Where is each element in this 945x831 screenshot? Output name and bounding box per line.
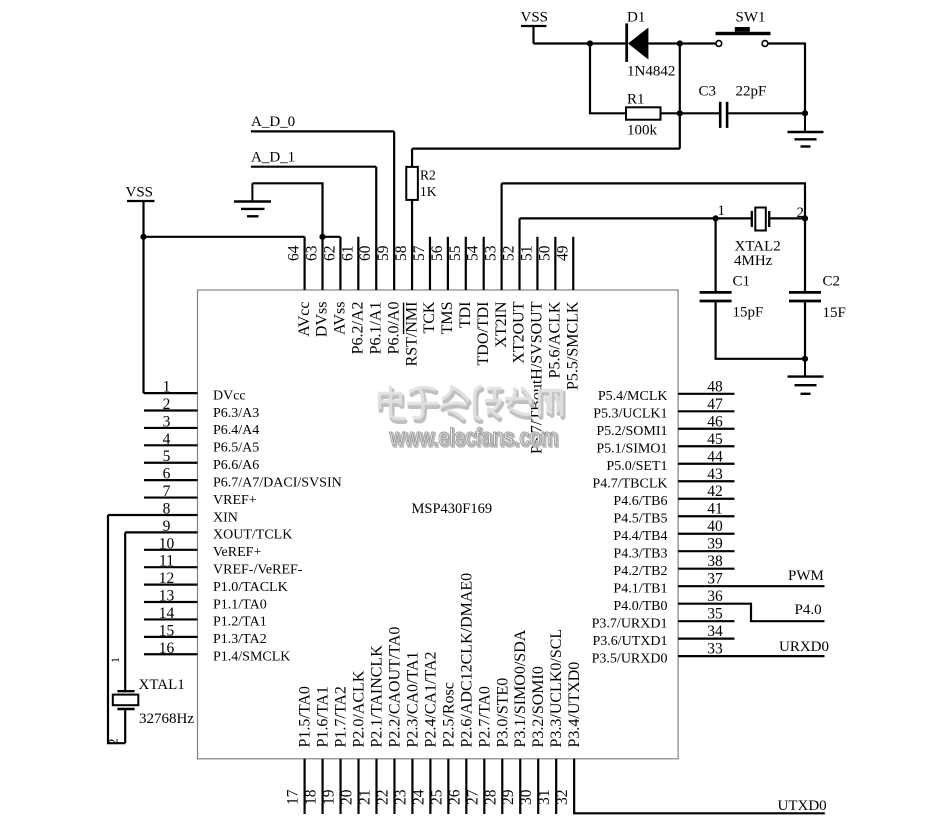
wire pin52 XT2OUT to node 1	[520, 217, 752, 219]
pin 51 lead	[536, 237, 538, 290]
pin 28 lead	[501, 759, 503, 814]
wire SW1 to ground	[768, 44, 805, 114]
svg-text:20: 20	[339, 789, 356, 805]
capacitor C1	[700, 291, 732, 294]
svg-text:1: 1	[718, 203, 726, 219]
resistor R1	[626, 107, 661, 119]
svg-text:P5.6/ACLK: P5.6/ACLK	[547, 301, 564, 378]
svg-text:51: 51	[518, 246, 535, 262]
svg-text:P2.3/CA0/TA1: P2.3/CA0/TA1	[404, 651, 421, 747]
pin 5 lead	[144, 462, 198, 464]
pin 14 lead	[144, 618, 198, 620]
wire pin53 XT2IN to node 2	[502, 183, 805, 218]
svg-text:P4.0: P4.0	[795, 602, 822, 618]
pin 56 lead	[447, 237, 449, 290]
crystal XTAL2	[751, 211, 753, 227]
pin 25 lead	[447, 759, 449, 814]
wire D1 to switch	[648, 42, 716, 44]
pin 46 lead	[678, 428, 734, 430]
svg-text:2: 2	[106, 739, 121, 746]
svg-text:14: 14	[159, 605, 175, 622]
svg-text:P3.5/URXD0: P3.5/URXD0	[592, 651, 668, 666]
svg-text:XT2OUT: XT2OUT	[511, 301, 528, 363]
svg-text:11: 11	[159, 553, 174, 570]
svg-text:41: 41	[707, 501, 723, 518]
pin 23 lead	[411, 759, 413, 814]
resistor R2	[406, 167, 418, 200]
svg-text:TDI: TDI	[457, 302, 474, 329]
svg-text:P4.6/TB6: P4.6/TB6	[613, 494, 667, 509]
junction at pin63	[319, 234, 325, 240]
svg-text:P3.0/STE0: P3.0/STE0	[494, 678, 511, 748]
svg-text:27: 27	[464, 789, 481, 805]
svg-text:URXD0: URXD0	[779, 639, 829, 655]
power symbol VSS (top)	[521, 25, 547, 27]
svg-text:C3: C3	[699, 84, 717, 100]
svg-text:P5.4/MCLK: P5.4/MCLK	[598, 389, 668, 404]
svg-text:24: 24	[410, 789, 427, 805]
svg-text:28: 28	[482, 789, 499, 805]
svg-text:P2.4/CA1/TA2: P2.4/CA1/TA2	[422, 651, 439, 747]
pin 42 lead	[678, 498, 734, 500]
wire A_D_0 to pin59	[251, 130, 394, 132]
svg-text:MSP430F169: MSP430F169	[412, 501, 493, 517]
pin 10 lead	[144, 549, 198, 551]
svg-text:58: 58	[393, 245, 410, 261]
svg-text:38: 38	[707, 553, 723, 570]
pin 6 lead	[144, 479, 198, 481]
svg-text:P2.7/TA0: P2.7/TA0	[476, 686, 493, 747]
svg-text:PWM: PWM	[788, 568, 824, 584]
svg-text:XTAL1: XTAL1	[139, 677, 185, 693]
svg-text:32: 32	[554, 790, 571, 806]
svg-text:P6.1/A1: P6.1/A1	[367, 302, 384, 355]
svg-text:1: 1	[163, 379, 171, 396]
pin 29 lead	[519, 759, 521, 814]
wire C2 to ground	[804, 301, 806, 359]
svg-text:42: 42	[707, 483, 723, 500]
svg-text:P6.4/A4: P6.4/A4	[213, 423, 259, 438]
svg-text:43: 43	[707, 466, 723, 483]
overline on NMI of pin 58 label	[403, 303, 405, 335]
svg-text:36: 36	[707, 588, 723, 605]
wire node2 to C2	[804, 218, 806, 292]
wire R1 to C3	[661, 112, 721, 114]
svg-text:100k: 100k	[627, 123, 658, 139]
svg-text:P1.6/TA1: P1.6/TA1	[315, 686, 332, 747]
svg-text:62: 62	[321, 246, 338, 262]
wire node1 to C1	[714, 218, 716, 292]
wire D1 junction down to R2 net	[679, 44, 681, 149]
svg-text:3: 3	[163, 413, 171, 430]
capacitor C2	[789, 291, 821, 294]
pin 33 lead	[678, 655, 824, 657]
pin 16 lead	[144, 653, 198, 655]
svg-text:22: 22	[374, 790, 391, 806]
svg-text:XIN: XIN	[213, 510, 238, 525]
svg-text:R2: R2	[420, 168, 436, 183]
pin 57 lead	[429, 237, 431, 290]
svg-text:15: 15	[159, 622, 175, 639]
svg-text:P1.2/TA1: P1.2/TA1	[213, 615, 267, 630]
svg-text:SW1: SW1	[736, 10, 766, 26]
svg-text:63: 63	[304, 245, 321, 261]
pin 50 lead	[554, 237, 556, 290]
svg-text:40: 40	[707, 518, 723, 535]
svg-text:17: 17	[285, 789, 302, 805]
pin 26 lead	[465, 759, 467, 814]
switch SW1	[716, 32, 771, 35]
svg-text:32768Hz: 32768Hz	[139, 711, 194, 727]
svg-text:33: 33	[707, 641, 723, 658]
svg-text:VREF-/VeREF-: VREF-/VeREF-	[213, 563, 303, 578]
pin 12 lead	[144, 584, 198, 586]
svg-text:R1: R1	[627, 92, 645, 108]
pin 53 lead	[501, 183, 503, 290]
svg-text:12: 12	[159, 570, 175, 587]
svg-text:64: 64	[286, 245, 303, 261]
pin 1 lead	[144, 392, 198, 394]
pin 64 lead	[304, 237, 306, 290]
svg-text:P4.4/TB4: P4.4/TB4	[613, 529, 667, 544]
pin 59 lead	[393, 131, 395, 290]
svg-text:P4.3/TB3: P4.3/TB3	[613, 547, 667, 562]
pin 13 lead	[144, 601, 198, 603]
svg-text:7: 7	[163, 483, 171, 500]
svg-text:P4.5/TB5: P4.5/TB5	[613, 512, 667, 527]
svg-text:26: 26	[446, 789, 463, 805]
svg-text:39: 39	[707, 536, 723, 553]
pin 47 lead	[678, 410, 734, 412]
wire ground to pin63	[252, 183, 322, 237]
svg-text:VeREF+: VeREF+	[213, 545, 261, 560]
pin 55 lead	[465, 237, 467, 290]
pin 49 lead	[572, 237, 574, 290]
pin 24 lead	[429, 759, 431, 814]
svg-text:P5.2/SOMI1: P5.2/SOMI1	[596, 424, 667, 439]
svg-text:23: 23	[392, 789, 409, 805]
svg-text:P1.0/TACLK: P1.0/TACLK	[213, 580, 288, 595]
svg-text:P5.1/SIMO1: P5.1/SIMO1	[596, 442, 667, 457]
svg-text:55: 55	[447, 245, 464, 261]
svg-text:59: 59	[375, 245, 392, 261]
pin 37 lead	[678, 585, 824, 587]
junction R1/C3/reset	[677, 110, 683, 116]
svg-text:VREF+: VREF+	[213, 493, 257, 508]
svg-text:25: 25	[428, 789, 445, 805]
svg-text:TCK: TCK	[421, 301, 438, 333]
node 2 junction	[802, 215, 808, 221]
svg-text:P6.7/A7/DACI/SVSIN: P6.7/A7/DACI/SVSIN	[213, 475, 342, 490]
crystal XTAL1	[117, 690, 134, 692]
svg-text:10: 10	[159, 535, 175, 552]
pin 48 lead	[678, 393, 734, 395]
pin 11 lead	[144, 566, 198, 568]
pin 36 lead	[678, 604, 824, 621]
svg-text:16: 16	[159, 640, 175, 657]
svg-text:22pF: 22pF	[736, 84, 767, 100]
pin 21 lead	[375, 759, 377, 814]
svg-text:P3.6/UTXD1: P3.6/UTXD1	[592, 634, 667, 649]
svg-text:56: 56	[429, 245, 446, 261]
svg-text:4: 4	[163, 431, 171, 448]
svg-text:5: 5	[163, 448, 171, 465]
wire crystal to node 2	[769, 217, 805, 219]
svg-text:P3.7/URXD1: P3.7/URXD1	[592, 616, 668, 631]
svg-text:P6.2/A2: P6.2/A2	[350, 302, 367, 355]
junction C3/SW1 ground node	[802, 110, 808, 116]
svg-text:P3.1/SIMO0/SDA: P3.1/SIMO0/SDA	[512, 629, 529, 747]
diode D1	[625, 23, 628, 62]
svg-text:19: 19	[321, 789, 338, 805]
svg-text:P3.2/SOMI0: P3.2/SOMI0	[530, 666, 547, 747]
svg-text:P2.2/CAOUT/TA0: P2.2/CAOUT/TA0	[386, 627, 403, 748]
pin 2 lead	[144, 409, 198, 411]
wire VSS to diode D1	[534, 42, 627, 44]
svg-text:A_D_1: A_D_1	[251, 150, 295, 166]
svg-text:UTXD0: UTXD0	[778, 798, 827, 814]
pin 44 lead	[678, 463, 734, 465]
svg-text:P1.7/TA2: P1.7/TA2	[333, 686, 350, 747]
svg-text:1N4842: 1N4842	[627, 64, 675, 80]
svg-text:60: 60	[357, 245, 374, 261]
pin 9 lead	[125, 531, 197, 533]
svg-text:D1: D1	[627, 10, 645, 26]
svg-text:VSS: VSS	[126, 185, 154, 201]
wire reset net to R2	[412, 148, 680, 150]
wire C3 to ground	[727, 112, 805, 114]
wire pin9 XOUT down	[124, 532, 126, 691]
svg-text:P6.5/A5: P6.5/A5	[213, 441, 259, 456]
watermark elecfans	[381, 390, 563, 422]
svg-text:48: 48	[707, 378, 723, 395]
ground symbol (pin 63)	[251, 183, 253, 201]
pin 40 lead	[678, 533, 734, 535]
svg-text:XT2IN: XT2IN	[493, 301, 510, 348]
svg-text:61: 61	[339, 246, 356, 262]
capacitor C3	[719, 102, 722, 128]
svg-text:P2.1/TAINCLK: P2.1/TAINCLK	[368, 645, 385, 748]
junction right of D1	[677, 40, 683, 46]
svg-text:P1.3/TA2: P1.3/TA2	[213, 632, 267, 647]
pin 7 lead	[144, 496, 198, 498]
wire C1 to ground node	[716, 301, 805, 359]
wire VSS to pin64	[144, 236, 305, 238]
pin 3 lead	[144, 427, 198, 429]
svg-text:29: 29	[500, 789, 517, 805]
pin 38 lead	[678, 568, 734, 570]
svg-text:1: 1	[108, 657, 122, 663]
pin 63 lead	[321, 237, 323, 290]
pin 61 lead	[357, 237, 359, 290]
svg-text:VSS: VSS	[521, 10, 549, 26]
power symbol VSS (left)	[127, 200, 155, 202]
pin 62 lead	[339, 237, 341, 290]
svg-text:46: 46	[707, 413, 723, 430]
pin 20 lead	[357, 759, 359, 814]
pin 22 lead	[393, 759, 395, 814]
wire VSS-top stem	[532, 26, 534, 44]
svg-text:P5.0/SET1: P5.0/SET1	[606, 459, 667, 474]
pin 52 lead	[518, 218, 520, 290]
pin 60 lead	[375, 167, 377, 290]
junction at XTAL2 ground	[802, 356, 808, 362]
pin 30 lead	[537, 759, 539, 814]
svg-text:57: 57	[411, 245, 428, 261]
svg-text:8: 8	[163, 500, 171, 517]
svg-text:P6.3/A3: P6.3/A3	[213, 406, 259, 421]
svg-text:A_D_0: A_D_0	[251, 114, 295, 130]
svg-text:P2.0/ACLK: P2.0/ACLK	[351, 670, 368, 747]
svg-text:DVss: DVss	[314, 302, 331, 338]
svg-text:18: 18	[303, 789, 320, 805]
svg-text:P1.4/SMCLK: P1.4/SMCLK	[213, 650, 290, 665]
pin 8 lead	[108, 514, 198, 516]
svg-text:DVcc: DVcc	[213, 388, 246, 403]
svg-text:34: 34	[707, 623, 723, 640]
svg-text:P4.1/TB1: P4.1/TB1	[613, 581, 667, 596]
svg-text:31: 31	[536, 790, 553, 806]
svg-text:TDO/TDI: TDO/TDI	[475, 302, 492, 366]
svg-text:50: 50	[536, 245, 553, 261]
svg-text:47: 47	[707, 396, 723, 413]
svg-text:P4.7/TBCLK: P4.7/TBCLK	[592, 477, 667, 492]
svg-text:P1.5/TA0: P1.5/TA0	[297, 686, 314, 747]
svg-text:AVss: AVss	[332, 302, 349, 336]
svg-text:C2: C2	[823, 274, 841, 290]
svg-text:52: 52	[501, 246, 518, 262]
pin 4 lead	[144, 444, 198, 446]
pin 41 lead	[678, 515, 734, 517]
svg-text:37: 37	[707, 571, 723, 588]
pin 31 lead	[555, 759, 557, 814]
ground symbol (reset)	[804, 113, 806, 132]
svg-text:53: 53	[483, 245, 500, 261]
wire A_D_1 to pin60	[251, 166, 376, 168]
svg-text:C1: C1	[733, 274, 751, 290]
svg-text:P3.4/UTXD0: P3.4/UTXD0	[566, 662, 583, 748]
svg-text:AVcc: AVcc	[296, 302, 313, 337]
svg-text:15pF: 15pF	[733, 305, 764, 321]
pin 54 lead	[483, 237, 485, 290]
svg-text:XOUT/TCLK: XOUT/TCLK	[213, 528, 292, 543]
svg-text:P3.3/UCLK0/SCL: P3.3/UCLK0/SCL	[548, 629, 565, 748]
svg-text:6: 6	[163, 466, 171, 483]
svg-text:4MHz: 4MHz	[734, 253, 773, 269]
svg-text:www.elecfans.com: www.elecfans.com	[389, 424, 558, 451]
svg-text:54: 54	[465, 245, 482, 261]
svg-text:P5.5/SMCLK: P5.5/SMCLK	[564, 301, 581, 390]
svg-text:45: 45	[707, 431, 723, 448]
pin 32 lead	[574, 759, 825, 814]
pin 19 lead	[339, 759, 341, 814]
pin 27 lead	[483, 759, 485, 814]
pin 58 lead	[411, 200, 413, 290]
wire R2 top	[411, 149, 413, 167]
ground symbol (XTAL2)	[804, 359, 806, 377]
svg-text:15F: 15F	[823, 305, 846, 321]
pin 18 lead	[321, 759, 323, 814]
wire VSS rail vertical	[142, 201, 144, 393]
wire junction down to R1	[590, 44, 626, 114]
svg-text:9: 9	[163, 518, 171, 535]
svg-text:P6.6/A6: P6.6/A6	[213, 458, 259, 473]
wire pin63 to pin62	[323, 236, 341, 238]
svg-text:P5.3/UCLK1: P5.3/UCLK1	[593, 407, 667, 422]
wire pin8 XIN down	[108, 515, 125, 743]
svg-text:P2.5/Rosc: P2.5/Rosc	[440, 682, 457, 747]
svg-text:30: 30	[518, 789, 535, 805]
svg-text:49: 49	[554, 245, 571, 261]
svg-text:1K: 1K	[420, 184, 437, 199]
svg-text:P6.0/A0: P6.0/A0	[385, 302, 402, 355]
svg-text:TMS: TMS	[439, 302, 456, 335]
pin 17 lead	[304, 759, 306, 814]
pin 39 lead	[678, 550, 734, 552]
svg-text:21: 21	[356, 790, 373, 806]
svg-text:P2.6/ADC12CLK/DMAE0: P2.6/ADC12CLK/DMAE0	[458, 573, 475, 748]
wire crystal bottom stem	[124, 709, 126, 743]
pin 34 lead	[678, 638, 734, 640]
junction left of D1	[587, 40, 593, 46]
node 1 junction	[713, 215, 719, 221]
svg-text:RST/NMI: RST/NMI	[403, 302, 420, 367]
svg-text:P4.0/TB0: P4.0/TB0	[613, 599, 667, 614]
svg-text:P4.2/TB2: P4.2/TB2	[613, 564, 667, 579]
pin 43 lead	[678, 480, 734, 482]
svg-text:13: 13	[159, 588, 175, 605]
svg-text:P1.1/TA0: P1.1/TA0	[213, 597, 267, 612]
svg-text:2: 2	[163, 396, 171, 413]
svg-text:35: 35	[707, 606, 723, 623]
junction on VSS rail	[140, 234, 146, 240]
pin 15 lead	[144, 636, 198, 638]
svg-text:44: 44	[707, 448, 723, 465]
pin 45 lead	[678, 445, 734, 447]
pin 35 lead	[678, 620, 734, 622]
IC U1 MSP430F169 body	[198, 290, 679, 759]
